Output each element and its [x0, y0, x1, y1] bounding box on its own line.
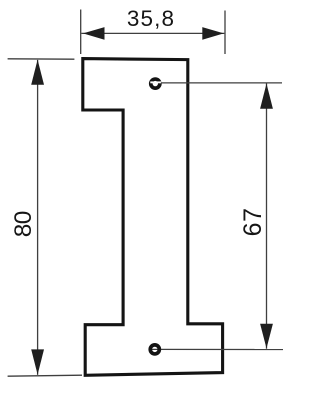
dimension 35,8 : extension line left — [80, 10, 82, 55]
dimension 80 : extension line top — [8, 58, 75, 60]
hole bottom — [150, 345, 159, 354]
leader line from top hole — [161, 82, 282, 84]
svg-text:35,8: 35,8 — [127, 6, 175, 31]
dimension 80 : dimension line — [37, 60, 39, 375]
dimension 35,8 : dimension line — [81, 32, 224, 34]
dimension 35,8 : arrow left — [83, 27, 105, 40]
dimension 80 : arrow up — [31, 60, 44, 85]
svg-text:67: 67 — [239, 207, 267, 236]
dimension 80 : arrow down — [31, 349, 44, 374]
dimension 80 : extension line bottom — [8, 375, 82, 376]
dimension 35,8 : extension line right — [224, 11, 226, 55]
dimension 67 : arrow down — [260, 324, 273, 349]
dimension 67 : dimension line — [266, 84, 268, 349]
dimension 67 : arrow up — [260, 84, 273, 109]
svg-text:80: 80 — [10, 211, 37, 237]
dimension 35,8 : arrow right — [202, 27, 224, 40]
hole top — [151, 79, 160, 88]
white gap of leader across top hole — [150, 81, 161, 83]
numeral 1 outline — [83, 59, 223, 376]
leader line from bottom hole — [152, 348, 284, 350]
